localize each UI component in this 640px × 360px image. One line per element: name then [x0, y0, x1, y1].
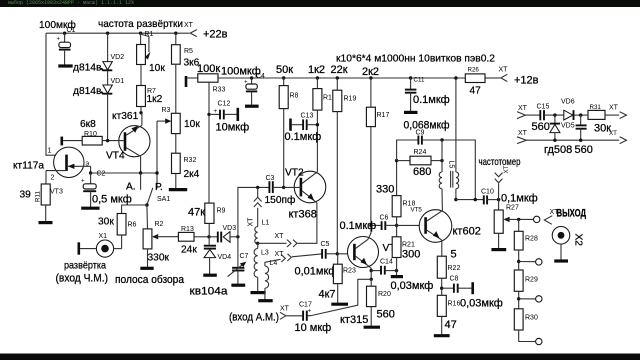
varicap VD4 — [203, 237, 217, 275]
svg-text:C14: C14 — [380, 259, 393, 266]
resistor R23 — [331, 254, 348, 304]
capacitor C11 — [404, 78, 418, 112]
capacitor C14 — [371, 266, 396, 275]
svg-text:C6: C6 — [380, 215, 389, 222]
svg-text:Р.: Р. — [155, 182, 163, 193]
svg-text:C4: C4 — [256, 73, 265, 80]
terminal circle tap2 — [536, 259, 542, 265]
svg-text:R30: R30 — [525, 315, 538, 322]
svg-text:R33: R33 — [213, 87, 226, 94]
wire rail B right of R26 — [485, 77, 500, 79]
svg-text:0,068мкф: 0,068мкф — [404, 120, 450, 132]
svg-text:+: + — [214, 108, 218, 115]
inductor L4 — [258, 266, 272, 301]
capacitor C13 with open terminal — [291, 119, 318, 131]
svg-text:R10: R10 — [84, 131, 97, 138]
trimmer capacitor C7 — [228, 237, 247, 285]
svg-text:C13: C13 — [301, 113, 314, 120]
svg-text:C10: C10 — [481, 189, 494, 196]
node R21 bottom — [395, 269, 398, 272]
node R26 left — [454, 76, 457, 79]
svg-text:4к7: 4к7 — [319, 289, 336, 301]
svg-text:0.1мкф: 0.1мкф — [340, 220, 377, 232]
svg-text:0.1мкф: 0.1мкф — [285, 131, 322, 143]
capacitor C2 — [81, 173, 100, 208]
svg-text:R3: R3 — [162, 107, 171, 114]
resistor R3 potentiometer — [157, 113, 180, 133]
resistor R24 — [397, 156, 442, 165]
svg-text:C7: C7 — [240, 253, 249, 260]
svg-text:VD3: VD3 — [223, 225, 237, 232]
connector arrow АМ input — [280, 312, 286, 319]
svg-text:VT2: VT2 — [285, 168, 304, 179]
svg-text:+: + — [56, 36, 60, 43]
wire tap3 — [519, 298, 536, 300]
svg-text:2: 2 — [51, 175, 55, 182]
svg-text:+22в: +22в — [203, 29, 228, 41]
svg-text:развёртка: развёртка — [64, 261, 106, 272]
resistor R18 — [392, 161, 401, 226]
node C2 — [89, 171, 92, 174]
transformer secondary winding — [456, 78, 459, 200]
inductor L1 — [255, 227, 258, 244]
svg-text:R17: R17 — [377, 112, 390, 119]
svg-text:R1: R1 — [145, 31, 154, 38]
svg-text:10к: 10к — [184, 119, 200, 130]
svg-text:R16: R16 — [448, 301, 461, 308]
svg-text:680: 680 — [413, 166, 431, 178]
svg-text:47: 47 — [445, 319, 457, 331]
svg-text:0.1мкф: 0.1мкф — [413, 94, 450, 106]
switch SA1 lever — [147, 188, 153, 205]
wire emitter net to R3 wiper — [91, 172, 157, 174]
connector arrow выход — [544, 216, 552, 225]
wire to VD2 — [107, 33, 109, 61]
resistor R8 — [279, 78, 288, 187]
svg-text:0,1мкф: 0,1мкф — [501, 193, 538, 205]
terminal circle tap4 — [536, 338, 542, 344]
resistor R9 — [205, 203, 214, 237]
ground R21/C14 — [391, 271, 403, 277]
svg-text:R21: R21 — [402, 242, 415, 249]
wire collector bus to C10 — [456, 199, 483, 201]
svg-text:R24: R24 — [414, 149, 427, 156]
svg-text:SA1: SA1 — [157, 196, 170, 203]
wire base VT2 — [284, 186, 301, 188]
resistor R26 — [465, 74, 485, 83]
resistor R29 — [514, 270, 523, 309]
svg-text:R29: R29 — [525, 277, 538, 284]
svg-text:ХТ: ХТ — [518, 105, 528, 112]
resistor R17 — [366, 78, 375, 225]
svg-text:+: + — [308, 308, 312, 315]
node R28 top — [517, 218, 520, 221]
node 560 cap bottom — [579, 139, 582, 142]
wire base кт602 — [397, 224, 426, 226]
svg-text:+12в: +12в — [514, 75, 539, 87]
connector arrow +22в — [190, 30, 197, 37]
varicap VD3 — [209, 232, 238, 243]
svg-text:С12: С12 — [218, 101, 231, 108]
svg-text:6к8: 6к8 — [80, 119, 96, 130]
svg-text:R28: R28 — [525, 236, 538, 243]
wire R3 to R32 — [175, 134, 177, 154]
diode VD6 — [564, 110, 588, 120]
transformer core — [450, 171, 452, 188]
wire base кт315 — [337, 253, 354, 255]
resistor R22 — [437, 256, 446, 295]
node tap2 — [517, 260, 520, 263]
wire R2 to ground — [147, 249, 149, 267]
capacitor C5 — [322, 249, 337, 259]
svg-text:47: 47 — [470, 86, 482, 97]
node VD3 right — [236, 235, 239, 238]
node R20 top — [370, 278, 373, 281]
resistor R2 potentiometer — [143, 229, 178, 249]
svg-text:ХТ: ХТ — [609, 130, 617, 137]
svg-text:частотомер: частотомер — [479, 157, 521, 168]
resistor R20 — [364, 279, 380, 327]
svg-text:C15: C15 — [537, 104, 550, 111]
capacitor 560 — [576, 115, 587, 140]
svg-text:L1: L1 — [262, 220, 270, 227]
svg-text:R11: R11 — [35, 191, 42, 202]
wire SA1 common to R2 — [146, 205, 149, 229]
wire emitter node down — [370, 271, 372, 280]
node R19 top — [336, 76, 339, 79]
svg-text:R32: R32 — [184, 157, 197, 164]
capacitor C15 — [540, 110, 563, 120]
svg-text:R23: R23 — [343, 268, 356, 275]
wire +12v rail B — [218, 77, 465, 79]
wire AM input branch — [307, 279, 371, 316]
node C11 — [409, 76, 412, 79]
svg-text:кт602: кт602 — [453, 226, 481, 238]
svg-text:560: 560 — [377, 309, 395, 321]
svg-text:C1: C1 — [67, 27, 76, 34]
svg-text:ХТ: ХТ — [275, 251, 285, 258]
capacitor C8 with open terminal — [442, 282, 473, 294]
connector arrow link upper left — [517, 112, 525, 119]
node C13 — [316, 123, 319, 126]
node R24 right — [440, 159, 443, 162]
wire VD3 node up to C3 — [238, 187, 269, 236]
node VT2 base — [282, 186, 285, 189]
svg-text:(вход А.М.): (вход А.М.) — [229, 312, 279, 324]
svg-text:Х2: Х2 — [573, 234, 584, 247]
resistor R16 — [434, 295, 450, 335]
svg-text:R19: R19 — [344, 96, 357, 103]
svg-text:300: 300 — [402, 249, 420, 261]
resistor R32 — [172, 153, 181, 173]
svg-text:кв104а: кв104а — [190, 286, 229, 298]
node R22 bottom — [440, 287, 443, 290]
svg-text:10 мкф: 10 мкф — [295, 322, 332, 334]
resistor R1 potentiometer — [137, 33, 151, 64]
capacitor C1 — [56, 33, 72, 66]
svg-text:50к: 50к — [276, 64, 293, 76]
svg-text:C8: C8 — [450, 276, 459, 283]
svg-text:R31: R31 — [590, 104, 602, 111]
svg-text:30к: 30к — [98, 217, 114, 228]
resistor R30 — [514, 309, 535, 342]
svg-text:L5: L5 — [448, 161, 455, 169]
wire R5 to R3 — [175, 64, 177, 113]
connector chevrons to C5 — [281, 255, 285, 262]
svg-text:1к2: 1к2 — [147, 94, 163, 105]
wire chevrons to C5 — [292, 254, 322, 257]
svg-text:39: 39 — [20, 190, 32, 201]
svg-text:ХТ: ХТ — [248, 217, 255, 227]
node base VT4 / VD1 — [106, 139, 109, 142]
wire lower link — [526, 139, 619, 141]
svg-text:R27: R27 — [506, 205, 519, 212]
svg-text:0,01мкф: 0,01мкф — [295, 266, 338, 278]
node VD5 bottom — [553, 139, 556, 142]
node secondary bottom — [454, 198, 457, 201]
node R7 bottom — [139, 111, 142, 114]
svg-text:100мкф: 100мкф — [221, 66, 261, 78]
wire R3 wiper to P contact — [156, 121, 158, 188]
svg-text:22к: 22к — [331, 64, 348, 76]
svg-text:5: 5 — [451, 249, 457, 261]
svg-text:С11: С11 — [414, 77, 425, 84]
svg-text:0,03мкф: 0,03мкф — [391, 280, 434, 292]
svg-text:ХТ: ХТ — [184, 22, 194, 29]
node R18 bottom — [395, 224, 398, 227]
svg-text:полоса обзора: полоса обзора — [115, 274, 185, 286]
svg-text:C17: C17 — [299, 302, 312, 309]
top title bar — [0, 0, 640, 7]
svg-text:C3: C3 — [266, 175, 275, 182]
svg-text:100к: 100к — [197, 63, 220, 75]
ground R2 — [140, 267, 153, 270]
svg-text:R5: R5 — [184, 48, 193, 55]
transformer primary winding — [439, 161, 442, 211]
transistor VT5 кт602 — [419, 210, 452, 257]
capacitor C17 — [286, 308, 312, 321]
connector arrow upper right — [620, 112, 627, 119]
svg-text:VD2: VD2 — [111, 54, 125, 61]
capacitor C10 — [484, 195, 499, 204]
resistor R7 — [137, 86, 146, 107]
svg-text:ХТ: ХТ — [499, 67, 509, 74]
connector arrow lower right — [620, 137, 627, 144]
resistor R13 — [178, 232, 209, 241]
svg-text:э: э — [86, 161, 90, 168]
wire L1 to chevrons — [258, 242, 287, 244]
switch SA1 contact A — [140, 173, 142, 190]
node R8 top — [282, 76, 285, 79]
capacitor C3 — [269, 181, 283, 193]
resistor R33 with open terminal — [186, 74, 218, 87]
svg-text:кт368: кт368 — [289, 209, 317, 221]
node bypass join — [474, 198, 477, 201]
svg-text:R6: R6 — [128, 222, 137, 229]
connector X1 — [79, 240, 122, 257]
inductor L3 — [251, 243, 266, 292]
node кт315 emitter — [370, 269, 373, 272]
svg-text:24к: 24к — [181, 245, 197, 256]
zener diode VD1 — [101, 85, 112, 94]
svg-text:1: 1 — [48, 148, 52, 155]
svg-text:R26: R26 — [468, 67, 480, 74]
resistor R10 with open terminal — [62, 136, 124, 145]
capacitor C4 — [244, 78, 259, 106]
diode VD5 — [550, 115, 560, 140]
node R24 left — [395, 159, 398, 162]
wire chevrons to VT2 emitter — [298, 203, 317, 244]
svg-text:С2: С2 — [97, 171, 106, 178]
node SA1 common — [145, 203, 149, 207]
wire to C15 — [525, 114, 539, 116]
connector chevrons up to L1 — [254, 187, 262, 226]
capacitor C6 — [371, 221, 397, 230]
bottom black bar — [0, 354, 640, 360]
node transformer primary top — [440, 138, 443, 141]
node C4 — [250, 76, 253, 79]
node L1 bottom — [256, 242, 259, 245]
node R1 top — [139, 32, 142, 35]
node VD5 top — [553, 113, 556, 116]
wire L4 top to chevrons — [265, 259, 281, 266]
svg-text:10мкф: 10мкф — [216, 122, 250, 134]
wire R32 to ground — [175, 174, 177, 189]
transistor VT кт315 — [348, 225, 379, 270]
svg-text:Х1: Х1 — [99, 233, 108, 240]
svg-text:R2: R2 — [155, 221, 164, 228]
resistor R28 — [514, 219, 523, 270]
svg-text:2к2: 2к2 — [362, 66, 379, 78]
wire node up — [441, 140, 443, 161]
svg-text:кт117а: кт117а — [13, 161, 44, 172]
ground R32 — [169, 188, 187, 191]
node R9/VD3/R13 — [207, 235, 210, 238]
svg-text:VT4: VT4 — [106, 151, 125, 162]
svg-text:ВЫХОД: ВЫХОД — [557, 208, 587, 220]
node C6 left — [369, 224, 372, 227]
connector chevrons частотомер — [495, 173, 503, 200]
svg-text:VT3: VT3 — [50, 189, 63, 196]
svg-text:47к: 47к — [188, 207, 205, 219]
wire +22v rail A — [46, 32, 190, 34]
svg-text:частота развёртки: частота развёртки — [98, 19, 183, 30]
svg-text:ХТ: ХТ — [518, 130, 528, 137]
svg-text:L3: L3 — [261, 250, 269, 257]
wire SA1 common to R6 — [122, 205, 147, 214]
svg-text:к10*6*4 м1000нн 10витков пэв0: к10*6*4 м1000нн 10витков пэв0.2 — [336, 54, 495, 65]
node частотомер — [497, 198, 500, 201]
svg-text:ХТ: ХТ — [280, 306, 290, 313]
svg-text:560: 560 — [575, 144, 593, 156]
svg-text:д814в: д814в — [73, 63, 101, 74]
svg-text:VD6: VD6 — [561, 99, 575, 106]
svg-text:R20: R20 — [378, 291, 391, 298]
resistor R15 — [313, 78, 322, 172]
node wiper line — [155, 171, 158, 174]
svg-text:ХТ: ХТ — [609, 105, 619, 112]
svg-text:(вход Ч.М.): (вход Ч.М.) — [56, 273, 109, 285]
resistor R21 — [392, 225, 401, 270]
connector X2 — [552, 227, 570, 262]
svg-text:150пф: 150пф — [265, 194, 296, 206]
resistor R11 — [39, 184, 53, 223]
terminal circle tap1 — [534, 216, 540, 222]
connector arrow +12в — [501, 74, 508, 81]
svg-text:гд508: гд508 — [544, 144, 572, 156]
resistor R6 — [117, 214, 126, 249]
wire R7 to VT4 — [140, 107, 142, 113]
capacitor C12 — [209, 108, 238, 121]
node R5 top — [174, 32, 177, 35]
wire R33 down to C12/R9 — [208, 82, 210, 203]
svg-text:2к4: 2к4 — [184, 169, 200, 180]
node 560 cap top — [579, 113, 582, 116]
resistor R19 — [333, 78, 342, 254]
resistor R27 potentiometer — [491, 200, 533, 250]
transistor кт117а (VT3 UJT) — [46, 147, 91, 184]
svg-text:0,5 мкф: 0,5 мкф — [92, 194, 132, 206]
wire tap2 — [519, 261, 536, 263]
node VD2 top — [106, 32, 109, 35]
svg-text:0,03мкф: 0,03мкф — [460, 298, 503, 310]
svg-text:R9: R9 — [217, 208, 226, 215]
svg-text:ХТ: ХТ — [503, 165, 510, 173]
svg-text:R8: R8 — [290, 93, 299, 100]
connector chevrons to VT2 emitter — [287, 240, 291, 247]
node R15 top — [316, 76, 319, 79]
wire R1-R7 — [140, 65, 142, 86]
svg-text:А.: А. — [126, 182, 136, 193]
node кт315 base — [336, 252, 339, 255]
svg-text:кт315: кт315 — [340, 314, 368, 326]
connector arrow link lower left — [517, 137, 526, 144]
wire VD2-VD1 — [107, 70, 109, 85]
zener diode VD2 — [101, 62, 112, 71]
transistor VT4 кт361 — [119, 113, 150, 173]
svg-text:VT5: VT5 — [411, 207, 423, 214]
svg-text:R22: R22 — [448, 265, 461, 272]
svg-text:ХТ: ХТ — [275, 233, 285, 240]
svg-text:10к: 10к — [149, 63, 165, 74]
resistor R5 — [172, 33, 181, 64]
resistor R31 — [588, 110, 619, 119]
svg-text:1к2: 1к2 — [308, 64, 325, 76]
svg-text:R13: R13 — [181, 226, 194, 233]
node tap3 — [517, 297, 520, 300]
wire VD1 to base node — [107, 94, 109, 141]
svg-text:330: 330 — [376, 184, 394, 196]
capacitor C9 parallel loop — [397, 136, 476, 200]
svg-text:330к: 330к — [148, 253, 170, 264]
svg-text:VD1: VD1 — [111, 78, 125, 85]
wire left rail down to UJT pin1 — [46, 33, 67, 155]
svg-text:д814в: д814в — [73, 86, 101, 97]
svg-text:кт361: кт361 — [112, 111, 139, 122]
terminal circle tap3 — [536, 296, 542, 302]
node C12 — [207, 113, 210, 116]
transistor VT2 кт368 — [294, 171, 326, 203]
svg-text:VD4: VD4 — [218, 254, 232, 261]
svg-text:C5: C5 — [321, 241, 330, 248]
svg-text:560: 560 — [532, 121, 550, 133]
node C1 top — [63, 32, 66, 35]
node VT4 collector on emitter net — [139, 171, 142, 174]
node R17 top — [369, 76, 372, 79]
node XT link — [256, 186, 259, 189]
svg-text:VD5: VD5 — [561, 123, 575, 130]
